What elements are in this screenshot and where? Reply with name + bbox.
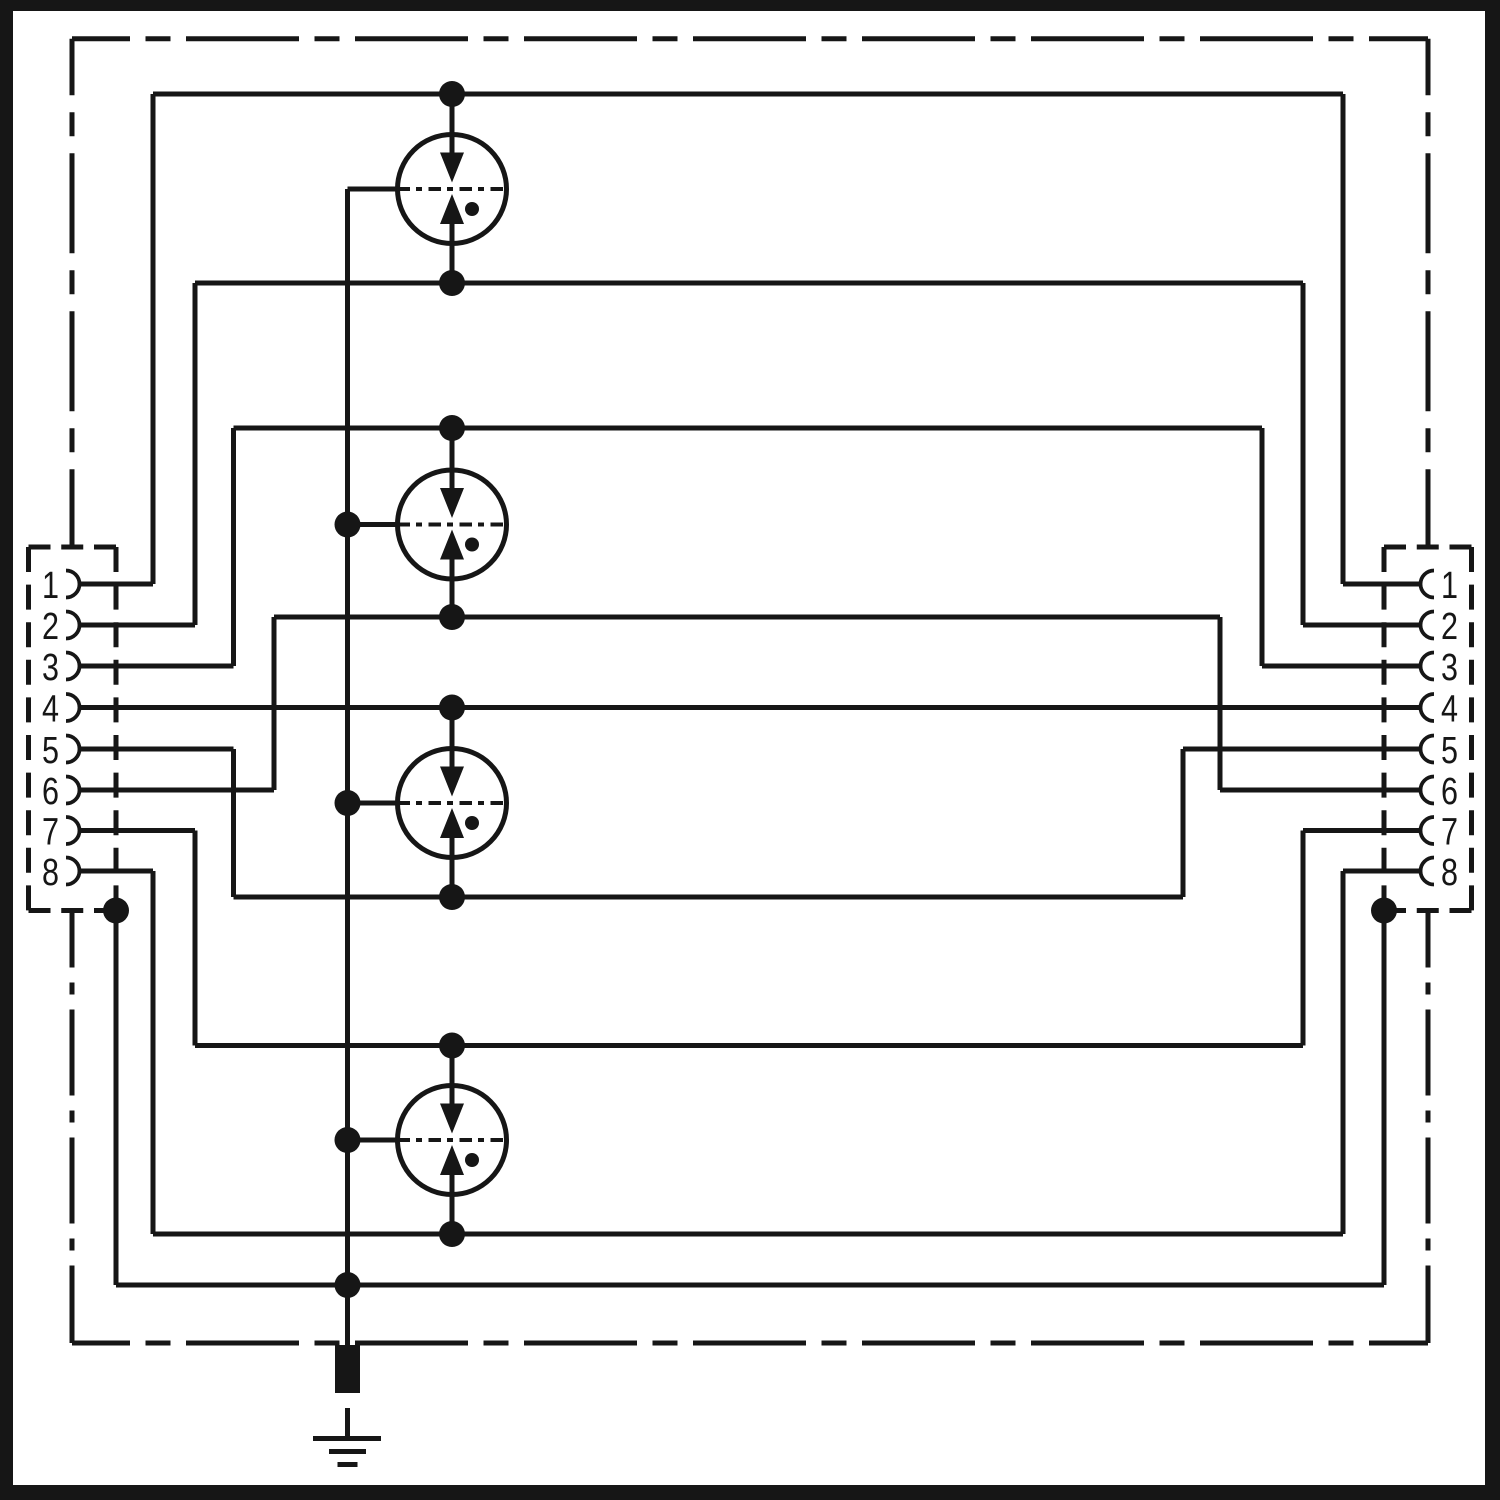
svg-text:6: 6 [42,771,59,813]
svg-text:8: 8 [1441,852,1458,894]
svg-text:5: 5 [42,730,59,772]
svg-text:3: 3 [1441,647,1458,689]
svg-text:3: 3 [42,647,59,689]
svg-text:7: 7 [1441,811,1458,853]
svg-text:6: 6 [1441,771,1458,813]
svg-text:4: 4 [42,688,59,730]
svg-text:1: 1 [42,565,59,607]
svg-text:1: 1 [1441,565,1458,607]
svg-text:2: 2 [1441,606,1458,648]
svg-text:2: 2 [42,606,59,648]
svg-text:5: 5 [1441,730,1458,772]
svg-text:8: 8 [42,852,59,894]
svg-text:4: 4 [1441,688,1458,730]
svg-text:7: 7 [42,811,59,853]
